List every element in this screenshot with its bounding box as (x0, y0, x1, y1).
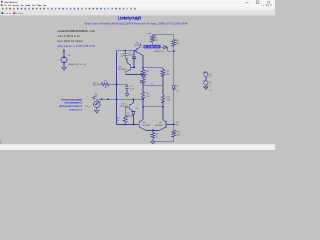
svg-text:4k: 4k (146, 74, 148, 76)
canvas corner mark (0, 140, 2, 144)
junction dots (101, 50, 175, 131)
supply stub (203, 71, 206, 81)
svg-text:Edit: Edit (8, 4, 11, 7)
svg-text:.four 1kHz 10 V(out): .four 1kHz 10 V(out) (57, 39, 83, 43)
transistor U3 (126, 63, 134, 72)
potentiometer X part (92, 96, 96, 101)
supply V3 (204, 81, 208, 85)
svg-text:vlim: vlim (148, 33, 152, 35)
node dots (125, 50, 127, 52)
svg-text:BC546B: BC546B (120, 106, 128, 108)
potentiometer arrow (95, 101, 100, 105)
svg-text:forum.cxem.net/index.php?/topi: forum.cxem.net/index.php?/topic/218743-l… (85, 21, 189, 25)
pot ground stub (96, 108, 98, 111)
svg-text:BC546B: BC546B (155, 125, 163, 127)
svg-text:.step param p 0.05 0.95 0.15: .step param p 0.05 0.95 0.15 (57, 44, 96, 48)
svg-text:BC556B: BC556B (134, 45, 142, 47)
capacitor C2 (123, 51, 127, 63)
component labels (62, 33, 212, 139)
potentiometer body (94, 101, 101, 108)
selected net label Limiter (143, 45, 160, 49)
svg-text:V·limiter: V·limiter (144, 46, 159, 49)
svg-text:Limiter by YuriyB: Limiter by YuriyB (118, 16, 141, 21)
ground pot (95, 110, 99, 113)
svg-text:14: 14 (209, 76, 211, 78)
wire right chain (162, 68, 164, 120)
supply ground stub (203, 80, 206, 87)
directives (57, 29, 96, 48)
diode D5 (161, 46, 174, 52)
wire U3 emitter L (126, 72, 145, 78)
diode D2 (132, 112, 136, 125)
svg-text:LTspice XVII - [Draft1.asc]: LTspice XVII - [Draft1.asc] (4, 1, 18, 4)
wire chain bottom (143, 99, 163, 120)
svg-text:10k: 10k (94, 95, 97, 97)
svg-text:режим p=1: режим p=1 (69, 108, 83, 111)
ground supply (204, 87, 208, 90)
transistor U2 (125, 99, 133, 111)
capacitor C1 (125, 87, 129, 94)
svg-text:1k: 1k (117, 120, 119, 122)
resistor R1 horizontal (101, 83, 109, 86)
svg-text:10k: 10k (176, 43, 179, 45)
voltage source V1 wire (63, 52, 65, 67)
transistor Q1 (139, 120, 153, 131)
voltage source V1 (61, 57, 67, 63)
capacitor C3 (132, 51, 136, 68)
transistor Q5 (136, 43, 143, 68)
resistor R12 (161, 95, 164, 103)
svg-text:.include BC546B-BC556B.lib + s: .include BC546B-BC556B.lib + s.bjt (57, 29, 95, 33)
wire node e5 (143, 68, 163, 70)
rail bottom left (117, 123, 140, 125)
ground bottom (151, 141, 155, 144)
emitter node down (153, 130, 174, 141)
svg-text:.tran 0 40ms 0 1u: .tran 0 40ms 0 1u (57, 34, 81, 38)
resistor R4 vertical (123, 107, 127, 124)
resistor R6 (172, 130, 176, 137)
wire vcc right vertical lower (173, 124, 175, 141)
status bar (0, 144, 275, 150)
svg-text:BAS516: BAS516 (154, 50, 164, 53)
svg-text:Draft1.asc: Draft1.asc (4, 12, 11, 15)
svg-text:SINE(0 {V} 1k 0 0): SINE(0 {V} 1k 0 0) (68, 64, 86, 66)
menu bar (0, 4, 275, 7)
resistor R11 stub (173, 34, 175, 86)
port flag in2 box (93, 83, 97, 86)
vertical main left (116, 51, 118, 125)
transistor Q2 (153, 120, 166, 131)
tab bar (0, 11, 275, 16)
svg-text:BC546B: BC546B (143, 125, 151, 127)
zener diode D1 (172, 86, 175, 125)
svg-text:BC546B: BC546B (118, 69, 126, 71)
wire mid (143, 85, 163, 92)
resistor R7 stub top (152, 34, 154, 47)
resistor R11 (172, 40, 176, 47)
svg-text:ДО получения v(out) p=1: ДО получения v(out) p=1 (59, 105, 82, 108)
wire top rail vcc (153, 33, 174, 35)
comment block blue (59, 98, 82, 111)
svg-text:1.5: 1.5 (209, 90, 212, 92)
resistor R5 (141, 92, 144, 100)
resistor R3 (151, 133, 155, 138)
V1 plus minus (63, 57, 65, 62)
resistor R8b (141, 76, 145, 85)
resistor R9 (161, 70, 165, 77)
svg-text:BAS516: BAS516 (126, 115, 134, 118)
resistor R8 (141, 70, 145, 77)
svg-text:Hierarchy: Hierarchy (12, 4, 19, 7)
title bar (0, 0, 275, 4)
rail bottom right (166, 123, 174, 125)
port flag in (63, 50, 65, 52)
supply V2 (204, 73, 208, 77)
svg-text:Simulate: Simulate (25, 4, 31, 7)
toolbar (0, 7, 275, 11)
svg-text:10k: 10k (154, 39, 157, 41)
ground C1 (125, 94, 129, 97)
wire input row (98, 84, 127, 86)
svg-text:15: 15 (209, 84, 211, 86)
svg-text:Draft1.log: Draft1.log (16, 12, 24, 15)
SCHEMATIC (61, 34, 208, 144)
resistor R7 (151, 35, 155, 42)
svg-text:U1_a: U1_a (86, 106, 92, 108)
canvas background (0, 15, 275, 144)
ground V1 (62, 67, 66, 70)
wire top rail base (117, 50, 137, 52)
wire pot row (96, 98, 143, 100)
